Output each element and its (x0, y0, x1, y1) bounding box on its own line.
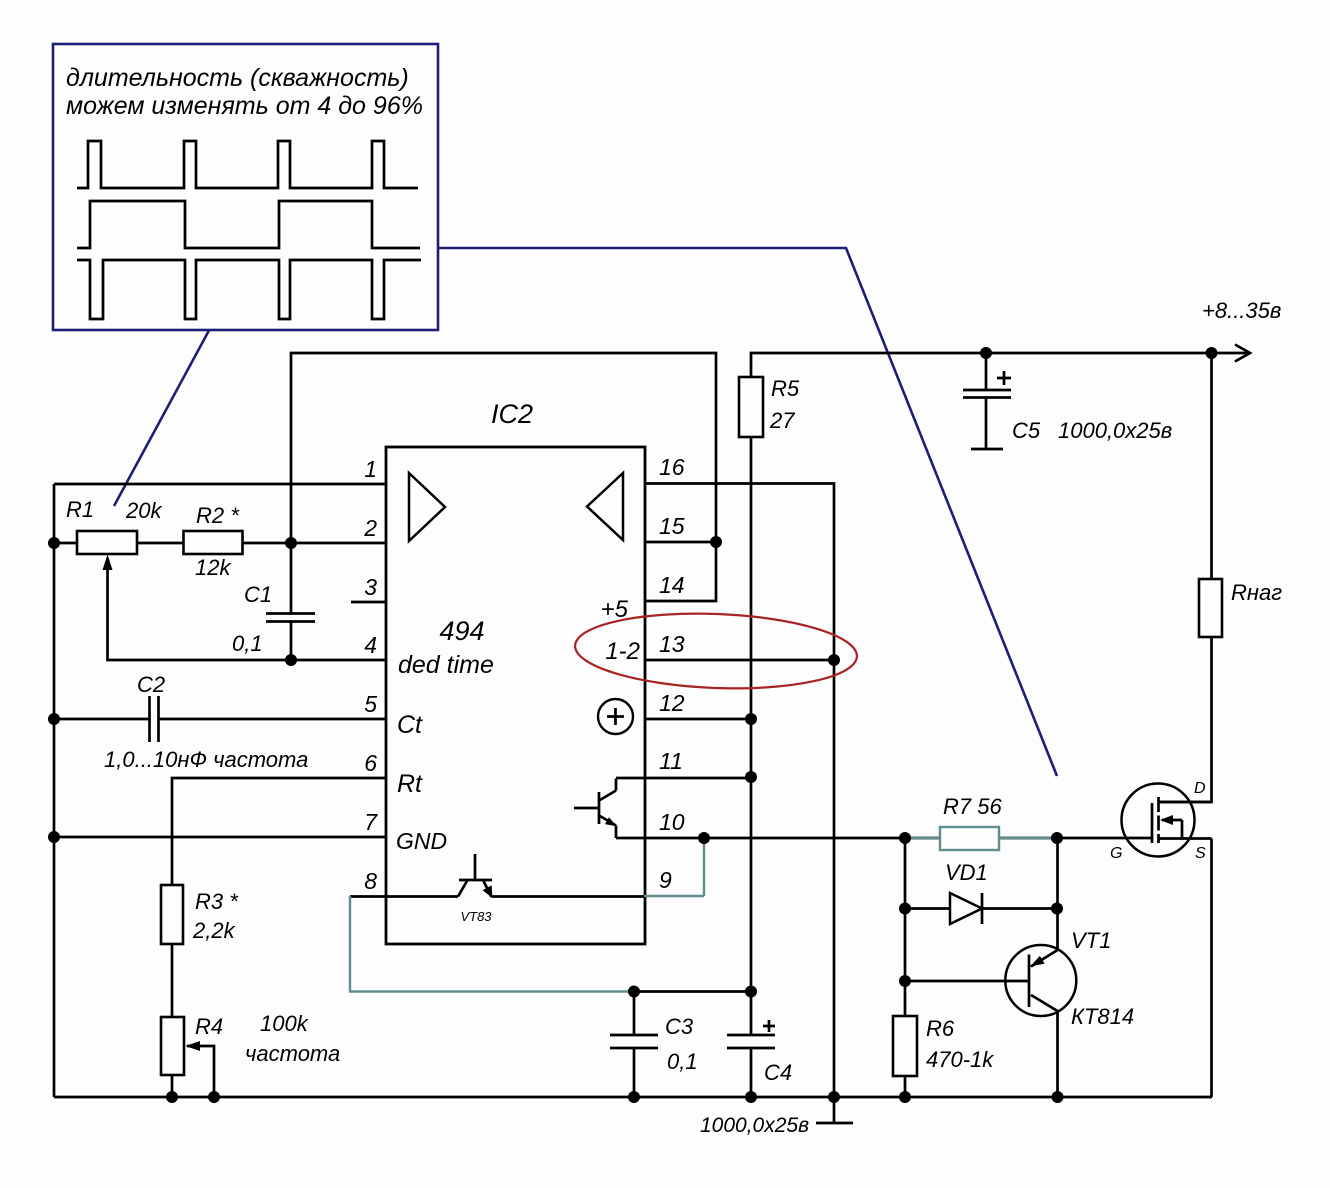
wire C3 (633, 992, 636, 1098)
svg-text:R7 56: R7 56 (943, 794, 1002, 819)
resistor R4 potentiometer (161, 1017, 214, 1097)
svg-text:8: 8 (364, 868, 377, 894)
wire bottom rail (54, 1096, 1212, 1099)
wire R6 vertical (904, 838, 907, 1097)
ground (816, 1097, 853, 1123)
wire left rail (53, 484, 56, 1097)
capacitor C5 (963, 390, 1011, 398)
svg-text:GND: GND (396, 828, 447, 854)
svg-text:+8...35в: +8...35в (1202, 298, 1281, 323)
plus C5 (997, 371, 1011, 385)
buffer triangle right (587, 473, 623, 540)
VT1 circle (1005, 945, 1076, 1016)
svg-text:0,1: 0,1 (232, 631, 263, 656)
svg-text:C1: C1 (244, 582, 272, 607)
svg-text:100k: 100k (260, 1011, 309, 1036)
svg-text:C2: C2 (137, 672, 165, 697)
wire pin5 with C2 (54, 718, 386, 721)
arrow +8...35v (1235, 345, 1250, 362)
wire C4 (750, 992, 753, 1098)
wire pin3 stub (351, 601, 386, 604)
wire R1-R2 chain pin2 (54, 542, 386, 545)
resistor R7 teal (905, 827, 1057, 850)
svg-text:6: 6 (364, 750, 377, 776)
wire Rnag to drain (1159, 637, 1212, 802)
svg-text:R2 *: R2 * (196, 503, 240, 528)
svg-text:C5: C5 (1012, 418, 1041, 443)
wire C5 (971, 353, 1003, 449)
svg-text:1-2: 1-2 (605, 638, 640, 665)
capacitor C3 (610, 1035, 658, 1048)
svg-text:13: 13 (659, 631, 685, 657)
capacitor C1 (266, 614, 315, 622)
reference circle + inside IC (598, 699, 633, 734)
svg-text:11: 11 (659, 748, 683, 774)
svg-text:C3: C3 (665, 1014, 694, 1039)
VT1 base bar (1028, 955, 1031, 1008)
capacitor C2 (150, 696, 159, 742)
wire mosfet source to rail (1159, 837, 1212, 840)
svg-text:R1: R1 (66, 497, 94, 522)
svg-text:20k: 20k (125, 498, 162, 523)
resistor R2 (184, 531, 243, 554)
mosfet VT2 (1122, 784, 1212, 857)
svg-text:ded time: ded time (398, 651, 494, 679)
svg-text:IC2: IC2 (491, 399, 533, 429)
svg-text:R3 *: R3 * (195, 889, 239, 914)
svg-text:Rнаг: Rнаг (1231, 580, 1282, 605)
red ellipse highlight (574, 609, 859, 694)
svg-text:9: 9 (659, 867, 672, 893)
waveform wide pulses (77, 201, 420, 248)
svg-text:G: G (1110, 845, 1122, 862)
svg-text:VT83: VT83 (460, 909, 492, 924)
output transistor inside IC (574, 779, 617, 839)
resistor R6 (893, 1016, 917, 1076)
diode VD1 (950, 893, 982, 924)
wire top-left to pins 15 14 (291, 353, 716, 601)
svg-text:VD1: VD1 (945, 860, 988, 885)
svg-text:3: 3 (364, 574, 377, 600)
svg-text:1000,0x25в: 1000,0x25в (1058, 418, 1172, 443)
note box frame (53, 44, 438, 330)
wire top rail +V (751, 353, 1250, 377)
svg-text:1000,0x25в: 1000,0x25в (700, 1114, 809, 1137)
svg-text:12k: 12k (195, 555, 231, 580)
svg-text:4: 4 (364, 632, 377, 658)
svg-text:R4: R4 (195, 1014, 223, 1039)
waveform inverted narrow pulses (77, 260, 421, 319)
svg-text:16: 16 (659, 454, 685, 480)
resistor R1 potentiometer (77, 531, 137, 570)
svg-text:Ct: Ct (397, 711, 423, 739)
plus C4 (763, 1020, 775, 1032)
svg-text:0,1: 0,1 (667, 1049, 698, 1074)
wire pin10 to gate (616, 837, 1152, 840)
svg-text:R6: R6 (926, 1016, 955, 1041)
svg-text:470-1k: 470-1k (926, 1047, 994, 1072)
buffer triangle left (409, 473, 445, 541)
resistor R3 (161, 885, 183, 944)
wire C3 to C4 (634, 990, 751, 993)
svg-text:D: D (1194, 780, 1206, 797)
svg-text:Rt: Rt (397, 770, 423, 798)
wire pin8 internal (350, 895, 644, 898)
svg-text:5: 5 (364, 691, 377, 717)
svg-text:2,2k: 2,2k (192, 918, 236, 943)
blue leader line to R1 area (114, 330, 210, 507)
op-amp IC2 body (386, 447, 645, 944)
svg-text:частота: частота (245, 1041, 340, 1066)
svg-text:S: S (1195, 845, 1206, 862)
waveform narrow pulses (77, 141, 418, 188)
wire VT1 emitter collector (1031, 838, 1058, 1097)
wire R5 down to C4 (750, 437, 753, 992)
svg-text:2: 2 (363, 515, 377, 541)
transistor VT83 inside IC (458, 854, 493, 898)
wire source rail down (1210, 839, 1213, 1098)
wire pin6 to R3 R4 (172, 778, 386, 1097)
svg-text:VT1: VT1 (1071, 928, 1111, 953)
resistor R5 (739, 377, 763, 437)
svg-text:1,0...10нФ частота: 1,0...10нФ частота (104, 747, 308, 772)
wire VT1 base (905, 980, 1029, 983)
svg-text:7: 7 (364, 809, 378, 835)
capacitor C4 (727, 1035, 775, 1048)
wire pin7 GND (54, 836, 386, 839)
wire Rnag top (1210, 353, 1213, 579)
resistor Rnag (1199, 579, 1222, 637)
wire C1 vertical (290, 543, 293, 660)
svg-text:15: 15 (659, 513, 685, 539)
svg-text:можем изменять от 4 до 96%: можем изменять от 4 до 96% (66, 92, 423, 120)
wire pin16 down right (645, 484, 834, 1098)
svg-text:10: 10 (659, 809, 685, 835)
blue leader line to R7 area (438, 248, 1057, 776)
wire R1 wiper to pin4 (108, 558, 387, 660)
svg-text:длительность (скважность): длительность (скважность) (66, 64, 409, 92)
svg-text:27: 27 (769, 408, 795, 433)
wire VD1 line (905, 907, 1057, 910)
svg-text:C4: C4 (764, 1060, 792, 1085)
wire pin11 (616, 777, 751, 780)
wire pin1 (54, 483, 386, 486)
wire pin12 (645, 718, 751, 721)
wire pin13 (645, 659, 834, 662)
VT1 arrow (1030, 956, 1045, 967)
svg-text:494: 494 (439, 616, 484, 646)
svg-text:КТ814: КТ814 (1071, 1004, 1134, 1029)
svg-text:12: 12 (659, 690, 685, 716)
wire teal pin8 loop (350, 896, 634, 992)
svg-text:14: 14 (659, 572, 685, 598)
svg-text:R5: R5 (771, 376, 800, 401)
wire teal pin9 (644, 838, 704, 896)
svg-text:1: 1 (364, 456, 377, 482)
